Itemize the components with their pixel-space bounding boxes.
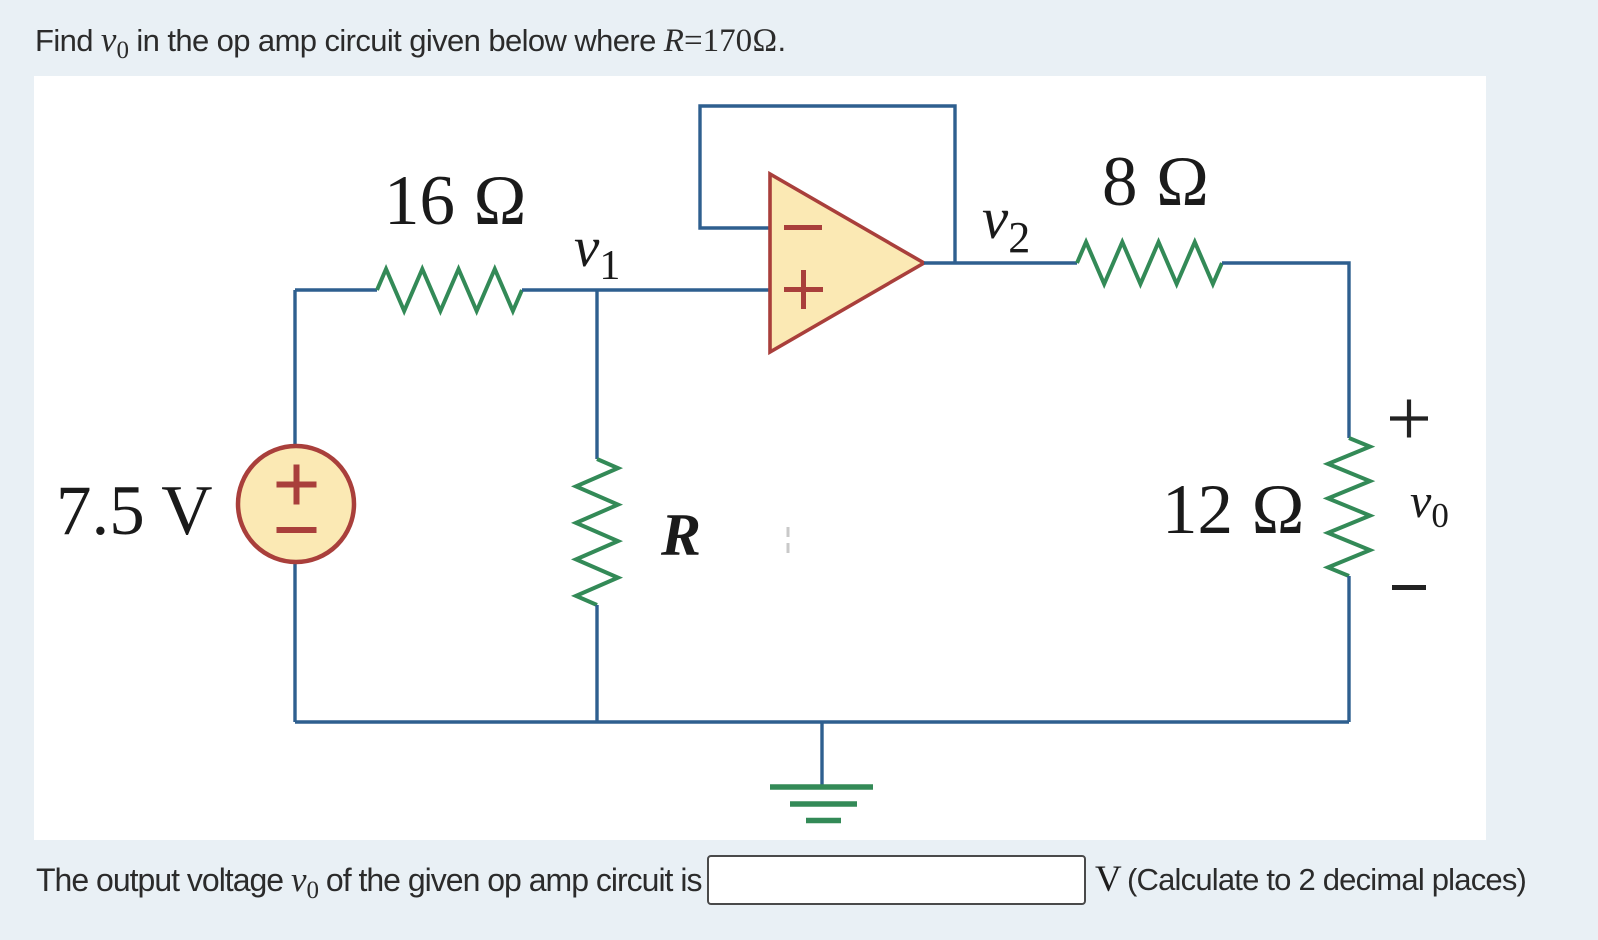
wire: ground stem [820,722,823,787]
wire: from 8-ohm resistor to top-right corner and down to 12-ohm resistor [1222,263,1349,438]
node v1 label [574,216,620,289]
question prompt text [35,20,785,65]
svg-text:16 Ω: 16 Ω [384,162,527,240]
answer input box [707,855,1086,905]
wire: top-left horizontal from source top corner to 16-ohm resistor [295,288,377,291]
wire: from 12-ohm resistor down to bottom rail [1347,576,1350,722]
resistor R2 8 ohm (zigzag) [1077,242,1222,284]
svg-text:7.5 V: 7.5 V [56,472,213,550]
label 8 ohm [1102,143,1210,221]
bottom answer sentence [36,860,701,905]
label R [660,502,701,568]
ground symbol [770,787,873,821]
unit V [1095,858,1122,901]
output polarity minus sign [1392,585,1426,590]
wire: feedback loop from output up over the op-amp to inverting input [700,106,955,263]
op-amp noninverting input plus sign [784,270,823,309]
svg-text:8 Ω: 8 Ω [1102,143,1210,221]
svg-text:R: R [660,502,701,568]
op-amp U1 triangle [770,174,924,352]
label 16 ohm [384,162,527,240]
wire: bottom rail [295,720,1349,723]
svg-text:v0: v0 [1410,475,1449,535]
voltage source minus sign [277,527,317,533]
resistor R (zigzag vertical) [576,459,618,605]
label 7.5 V [56,472,213,550]
label 12 ohm [1162,471,1305,549]
wire: vertical from node v1 down to resistor R [595,290,598,459]
calculate note [1127,862,1526,898]
resistor R3 12 ohm (zigzag vertical) [1328,438,1370,576]
svg-text:v1: v1 [574,216,620,289]
voltage source V1 7.5V circle [238,446,354,562]
wire: from resistor R bottom to bottom rail [595,605,598,722]
white circuit canvas [34,76,1486,840]
node v2 label [982,185,1030,262]
wire: left vertical from top corner down to source positive terminal [293,290,296,445]
output polarity plus sign [1390,400,1428,438]
svg-text:12 Ω: 12 Ω [1162,471,1305,549]
faint cursor mark [787,527,790,553]
svg-text:v2: v2 [982,185,1030,262]
wire: left vertical from source negative terminal to bottom rail [293,563,296,722]
resistor R1 16 ohm (zigzag) [377,269,522,311]
op-amp inverting input minus sign [784,225,822,230]
output voltage v0 label [1410,475,1449,535]
wire: node v1 horizontal run to op-amp noninverting input [522,288,770,291]
wire: op-amp output to 8-ohm resistor [924,261,1077,264]
voltage source plus sign [277,465,317,505]
